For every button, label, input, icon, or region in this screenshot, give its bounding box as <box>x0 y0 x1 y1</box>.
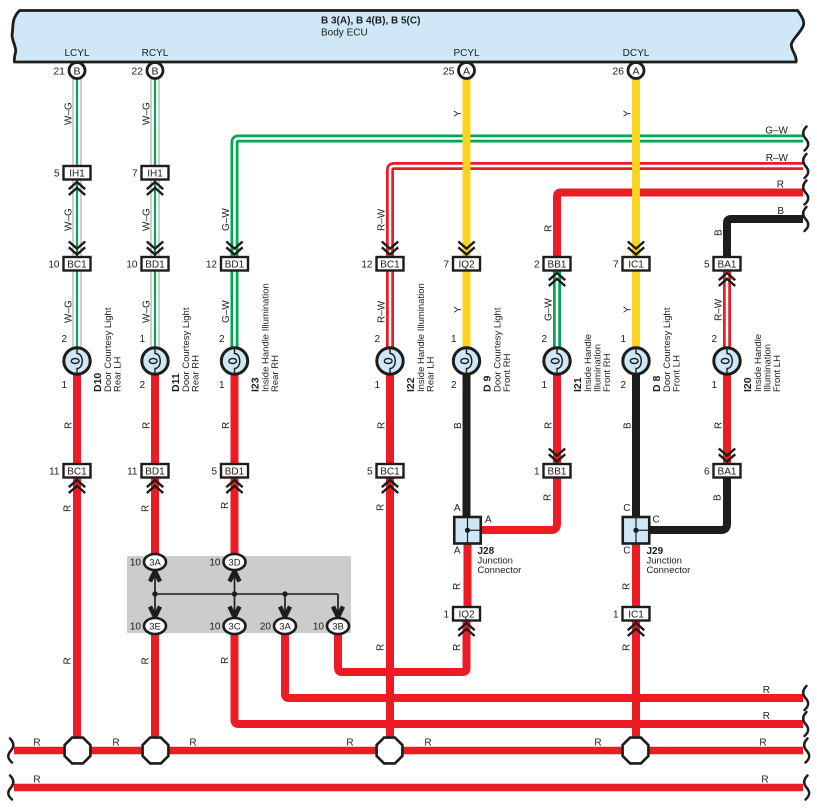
svg-text:W–G: W–G <box>142 208 153 231</box>
svg-text:2: 2 <box>451 380 457 391</box>
svg-text:Rear LH: Rear LH <box>113 356 124 392</box>
svg-text:LCYL: LCYL <box>64 48 89 59</box>
bulb pin numbers x=466.5 <box>451 334 457 391</box>
connector 12 BC1 <box>361 242 403 271</box>
svg-text:R–W: R–W <box>377 208 388 231</box>
svg-text:22: 22 <box>131 65 143 77</box>
junction connector J29 <box>623 517 650 544</box>
label I20 Inside Handle Illumination Front LH <box>742 334 783 392</box>
svg-text:W–G: W–G <box>64 208 75 231</box>
svg-text:BD1: BD1 <box>225 259 245 270</box>
label R c1 lower <box>63 657 74 664</box>
svg-text:10: 10 <box>48 259 60 270</box>
connector 1 IC1 <box>613 607 650 636</box>
svg-text:R: R <box>33 775 40 786</box>
svg-text:10: 10 <box>130 622 142 633</box>
svg-text:Y: Y <box>453 306 464 313</box>
label R main bus x=428 <box>424 738 431 749</box>
label B c5 <box>453 422 464 429</box>
label B c8 upper <box>714 229 725 236</box>
label J29 Junction Connector <box>647 546 691 576</box>
svg-text:R: R <box>377 422 388 429</box>
connector 10 3A <box>130 554 166 570</box>
svg-text:R: R <box>221 422 232 429</box>
svg-text:1: 1 <box>620 334 626 345</box>
svg-text:Front LH: Front LH <box>672 355 683 392</box>
label G-W c6 <box>544 298 555 321</box>
label R c4 lower <box>376 644 387 651</box>
label Y c7 lower <box>623 306 634 313</box>
svg-text:R: R <box>220 657 231 664</box>
svg-text:10: 10 <box>126 259 138 270</box>
label I22 Inside Handle Illumination Rear LH <box>405 283 437 392</box>
connector 10 BC1 <box>48 242 90 271</box>
label R c6 upper <box>544 225 555 232</box>
wire R from bulb D11 to connector 3A <box>151 372 159 558</box>
label R lineB right <box>763 685 770 696</box>
svg-text:BA1: BA1 <box>718 466 737 477</box>
svg-text:2: 2 <box>620 380 626 391</box>
svg-text:A: A <box>454 503 461 514</box>
svg-text:11: 11 <box>127 466 138 477</box>
wire R-W horizontal to right edge, turns down at x=390 <box>390 166 803 350</box>
connector 7 IQ2 <box>443 242 480 271</box>
svg-text:11: 11 <box>49 466 60 477</box>
svg-text:A: A <box>485 515 492 526</box>
svg-text:R: R <box>112 738 119 749</box>
svg-text:R: R <box>714 422 725 429</box>
svg-text:12: 12 <box>206 259 218 270</box>
pin A top of J28 <box>454 503 461 514</box>
svg-text:26: 26 <box>612 65 624 77</box>
svg-text:G–W: G–W <box>221 208 232 231</box>
label R lineC right <box>763 711 770 722</box>
svg-text:10: 10 <box>209 622 221 633</box>
label R-W c4 mid <box>377 208 388 231</box>
bulb pin numbers x=77.0 <box>61 334 67 391</box>
label R-W right <box>766 153 789 164</box>
label R main bus x=37 <box>33 738 40 749</box>
svg-text:3A: 3A <box>279 622 291 633</box>
label R c3 mid <box>220 502 231 509</box>
svg-text:DCYL: DCYL <box>623 48 650 59</box>
connector 1 BB1 <box>534 449 571 478</box>
label R c8 mid <box>714 422 725 429</box>
svg-text:2: 2 <box>61 334 67 345</box>
svg-text:B: B <box>73 65 80 77</box>
svg-text:IH1: IH1 <box>69 168 85 179</box>
svg-text:R: R <box>763 685 770 696</box>
ground bus R bottom with torn ends <box>14 784 803 792</box>
pin label DCYL <box>623 48 650 59</box>
svg-text:R: R <box>189 738 196 749</box>
svg-text:3C: 3C <box>228 622 240 633</box>
svg-text:Rear RH: Rear RH <box>270 355 281 392</box>
pin label LCYL <box>64 48 89 59</box>
svg-text:R: R <box>759 738 766 749</box>
svg-text:R: R <box>220 502 231 509</box>
label R main bus x=116 <box>112 738 119 749</box>
svg-text:1: 1 <box>61 380 67 391</box>
svg-text:R–W: R–W <box>377 300 388 323</box>
wire R from bulb D10 to ground octagon <box>73 372 81 751</box>
svg-text:R: R <box>763 711 770 722</box>
connector 10 3B <box>313 618 349 634</box>
svg-text:B: B <box>713 494 724 501</box>
svg-text:BC1: BC1 <box>380 259 400 270</box>
svg-text:Front LH: Front LH <box>772 355 783 392</box>
label G-W c3 lower <box>221 300 232 323</box>
svg-text:Connector: Connector <box>647 565 691 576</box>
svg-text:10: 10 <box>209 558 221 569</box>
svg-text:BB1: BB1 <box>548 466 567 477</box>
label R c2 lower <box>141 657 152 664</box>
lamp D10 <box>64 348 90 374</box>
pin 25 A <box>443 63 475 79</box>
svg-text:Connector: Connector <box>478 565 522 576</box>
wire R from connector 3E to ground octagon <box>151 630 159 751</box>
label Y c7 upper <box>623 110 634 117</box>
pin 26 A <box>612 63 644 79</box>
label R c7 lower <box>622 644 633 651</box>
wire R from connector 3C turning right to edge <box>235 630 804 724</box>
svg-text:G–W: G–W <box>765 126 788 137</box>
wire B from connector BA1 to junction J29 <box>650 478 727 531</box>
label G-W c3 mid <box>221 208 232 231</box>
torn end bottom bus right <box>804 776 809 800</box>
svg-text:R: R <box>544 225 555 232</box>
pin 22 B <box>131 63 163 79</box>
lamp I20 <box>714 348 740 374</box>
label R-W c4 lower <box>377 300 388 323</box>
svg-text:R: R <box>63 657 74 664</box>
torn end bottom bus left <box>8 776 13 800</box>
svg-text:IQ2: IQ2 <box>458 259 475 270</box>
svg-text:R: R <box>452 644 463 651</box>
label D11 Door Courtesy Light Rear RH <box>170 307 202 392</box>
svg-text:Front RH: Front RH <box>502 353 513 392</box>
svg-text:C: C <box>623 503 630 514</box>
pin A bottom of J28 <box>454 546 461 557</box>
junction connector J28 <box>454 517 481 544</box>
svg-text:BD1: BD1 <box>145 259 165 270</box>
ground bus R main with torn ends <box>14 747 803 755</box>
svg-text:B: B <box>453 422 464 429</box>
svg-text:R: R <box>622 583 633 590</box>
connector 1 IQ2 <box>443 607 480 636</box>
label Y c5 lower <box>453 306 464 313</box>
label R right <box>777 180 784 191</box>
label R main bus x=350 <box>346 738 353 749</box>
svg-text:BC1: BC1 <box>67 466 87 477</box>
connector 7 IC1 <box>613 242 650 271</box>
label R main bus x=598 <box>594 738 601 749</box>
label R c4 upper <box>377 422 388 429</box>
label W-G c2 mid <box>142 208 153 231</box>
connector 5 IH1 <box>54 166 91 195</box>
torn end B <box>803 207 808 231</box>
svg-text:Rear LH: Rear LH <box>426 356 437 392</box>
svg-text:3A: 3A <box>149 558 161 569</box>
svg-text:R: R <box>622 644 633 651</box>
svg-text:R: R <box>63 505 74 512</box>
label B right <box>777 206 784 217</box>
svg-text:W–G: W–G <box>64 102 75 125</box>
svg-text:Y: Y <box>623 306 634 313</box>
connector 10 3E <box>130 618 166 634</box>
svg-text:1: 1 <box>534 466 540 477</box>
svg-text:C: C <box>623 546 630 557</box>
bulb pin numbers x=390.0 <box>374 334 380 391</box>
svg-text:G–W: G–W <box>221 300 232 323</box>
svg-text:R: R <box>424 738 431 749</box>
svg-text:IH1: IH1 <box>147 168 163 179</box>
label R-W c8 <box>714 298 725 321</box>
label D10 Door Courtesy Light Rear LH <box>92 307 124 392</box>
label I23 Inside Handle Illumination Rear RH <box>250 283 282 392</box>
svg-text:1: 1 <box>541 380 547 391</box>
wire W-G from pin 21 to bulb D10 <box>73 77 82 350</box>
svg-text:R: R <box>777 180 784 191</box>
connector 5 BC1 <box>367 464 404 493</box>
svg-text:A: A <box>632 65 639 77</box>
svg-text:Front RH: Front RH <box>602 353 613 392</box>
wire B from bulb D8 to junction connector J29 <box>632 372 640 519</box>
svg-text:2: 2 <box>541 334 547 345</box>
ground node octagon 3 <box>377 738 403 764</box>
pin 21 B <box>53 63 85 79</box>
connector 11 BD1 <box>127 464 168 493</box>
label R main bus x=193 <box>189 738 196 749</box>
ground block internal busbar <box>150 571 343 617</box>
svg-text:W–G: W–G <box>64 300 75 323</box>
svg-text:R: R <box>543 494 554 501</box>
svg-text:R: R <box>64 422 75 429</box>
svg-text:5: 5 <box>54 168 60 179</box>
svg-text:10: 10 <box>313 622 325 633</box>
torn end main bus left <box>8 739 13 763</box>
svg-text:IQ2: IQ2 <box>458 609 475 620</box>
label R bottom bus x=765 <box>761 775 768 786</box>
wire R from junction J29 to ground octagon <box>632 542 640 751</box>
svg-text:A: A <box>463 65 470 77</box>
svg-text:2: 2 <box>219 334 225 345</box>
connector 6 BA1 <box>704 449 741 478</box>
label R c7 mid <box>622 583 633 590</box>
svg-text:2: 2 <box>139 380 145 391</box>
label W-G c1 upper <box>64 102 75 125</box>
svg-text:BD1: BD1 <box>145 466 165 477</box>
svg-text:5: 5 <box>367 466 373 477</box>
wire G-W from connector BB1 to bulb I21 <box>553 271 561 351</box>
svg-text:21: 21 <box>53 65 65 77</box>
connector 10 3C <box>209 618 245 634</box>
label D8 Door Courtesy Light Front LH <box>651 307 683 392</box>
wire R horizontal to right edge, turns down at x=557 <box>557 193 803 260</box>
lamp D9 <box>453 348 479 374</box>
svg-text:IC1: IC1 <box>628 259 644 270</box>
lamp D11 <box>142 348 168 374</box>
svg-text:RCYL: RCYL <box>142 48 169 59</box>
wire B from bulb D9 to junction connector J28 <box>463 372 471 519</box>
wire Y from pin 26 to bulb D8 <box>632 77 640 350</box>
bulb pin numbers x=155.0 <box>139 334 145 391</box>
svg-text:3E: 3E <box>149 622 161 633</box>
svg-text:Y: Y <box>623 110 634 117</box>
ECU block Body ECU B3(A) B4(B) B5(C) <box>12 11 804 63</box>
ground node octagon 4 <box>623 738 649 764</box>
wire R-W from connector BA1 to bulb I20 <box>723 271 731 351</box>
svg-text:7: 7 <box>132 168 138 179</box>
label G-W right <box>765 126 788 137</box>
label R bottom bus x=37 <box>33 775 40 786</box>
wire W-G from pin 22 to bulb D11 <box>151 77 160 350</box>
label R c2 upper <box>142 422 153 429</box>
label R c5 mid <box>452 583 463 590</box>
svg-text:1: 1 <box>139 334 145 345</box>
label B c8 lower <box>713 494 724 501</box>
svg-text:R: R <box>452 583 463 590</box>
svg-text:R: R <box>142 422 153 429</box>
svg-text:W–G: W–G <box>142 102 153 125</box>
label R c4 mid <box>376 504 387 511</box>
wire R from bulb I22 to ground octagon <box>386 372 394 751</box>
label W-G c1 mid <box>64 208 75 231</box>
svg-text:BB1: BB1 <box>548 259 567 270</box>
torn end G-W <box>803 127 808 151</box>
svg-text:3D: 3D <box>228 558 240 569</box>
svg-text:C: C <box>653 515 660 526</box>
pin label RCYL <box>142 48 169 59</box>
svg-text:PCYL: PCYL <box>453 48 480 59</box>
svg-text:R–W: R–W <box>766 153 789 164</box>
label J28 Junction Connector <box>478 546 522 576</box>
svg-text:1: 1 <box>451 334 457 345</box>
label B c7 <box>623 422 634 429</box>
connector 20 3A <box>260 618 296 634</box>
svg-text:B: B <box>623 422 634 429</box>
wire B horizontal to right edge, turns down at x=727 <box>727 219 803 259</box>
svg-text:7: 7 <box>443 259 449 270</box>
connector 2 BB1 <box>534 257 571 286</box>
bulb pin numbers x=636.0 <box>620 334 626 391</box>
pin C right of J29 <box>653 515 660 526</box>
svg-text:R: R <box>33 738 40 749</box>
svg-text:R: R <box>594 738 601 749</box>
svg-text:G–W: G–W <box>544 298 555 321</box>
connector 10 BD1 <box>126 242 168 271</box>
svg-text:IC1: IC1 <box>628 609 644 620</box>
wire R from junction J28 to connector IQ2 <box>464 542 472 621</box>
svg-text:5: 5 <box>211 466 217 477</box>
svg-text:B: B <box>777 206 784 217</box>
wire R from connector 3A-20 turning right to edge <box>285 630 803 698</box>
svg-text:1: 1 <box>711 380 717 391</box>
ground junction block <box>127 556 351 633</box>
svg-text:R: R <box>376 504 387 511</box>
svg-text:25: 25 <box>443 65 455 77</box>
svg-text:R–W: R–W <box>714 298 725 321</box>
label R c1 upper <box>64 422 75 429</box>
svg-text:B: B <box>151 65 158 77</box>
svg-text:BC1: BC1 <box>380 466 400 477</box>
label R c5 lower <box>452 644 463 651</box>
torn end R-W <box>803 154 808 178</box>
svg-text:Y: Y <box>453 110 464 117</box>
svg-text:B: B <box>714 229 725 236</box>
svg-text:R: R <box>376 644 387 651</box>
pin A right of J28 <box>485 515 492 526</box>
label I21 Inside Handle Illumination Front RH <box>572 334 613 392</box>
wire R from bulb I21 to connector BB1 <box>553 372 561 466</box>
label R c3 upper <box>221 422 232 429</box>
wire R from bulb I20 to connector BA1 <box>723 372 731 466</box>
bulb pin numbers x=727.0 <box>711 334 717 391</box>
svg-text:12: 12 <box>361 259 373 270</box>
wire G-W horizontal to right edge, turns down at x=234.5 <box>235 139 804 351</box>
svg-text:1: 1 <box>219 380 225 391</box>
connector 11 BC1 <box>49 464 90 493</box>
label W-G c2 upper <box>142 102 153 125</box>
lamp D8 <box>623 348 649 374</box>
label R main bus x=763 <box>759 738 766 749</box>
svg-text:1: 1 <box>443 609 449 620</box>
label R c3 lower <box>220 657 231 664</box>
svg-text:B 3(A), B 4(B), B 5(C): B 3(A), B 4(B), B 5(C) <box>321 16 420 27</box>
bulb pin numbers x=234.5 <box>219 334 225 391</box>
svg-text:3B: 3B <box>332 622 344 633</box>
svg-text:10: 10 <box>130 558 142 569</box>
label R c1 mid <box>63 505 74 512</box>
svg-text:W–G: W–G <box>142 300 153 323</box>
connector 5 BD1 <box>211 464 248 493</box>
label W-G c1 lower <box>64 300 75 323</box>
lamp I23 <box>221 348 247 374</box>
label R c2 mid <box>141 505 152 512</box>
svg-text:20: 20 <box>260 622 272 633</box>
svg-text:2: 2 <box>534 259 540 270</box>
svg-text:R: R <box>544 422 555 429</box>
svg-text:R: R <box>761 775 768 786</box>
bulb pin numbers x=557.0 <box>541 334 547 391</box>
connector 12 BD1 <box>206 242 248 271</box>
svg-text:BC1: BC1 <box>67 259 87 270</box>
label R c6 mid <box>544 422 555 429</box>
svg-text:1: 1 <box>374 380 380 391</box>
wire R from bulb I23 to connector 3D <box>231 372 239 558</box>
torn end line C right <box>803 712 808 736</box>
label Y c5 upper <box>453 110 464 117</box>
torn end main bus right <box>804 739 809 763</box>
lamp I21 <box>544 348 570 374</box>
wire R from connector BB1 to junction J28 <box>481 478 557 531</box>
svg-text:R: R <box>141 657 152 664</box>
svg-text:BD1: BD1 <box>225 466 245 477</box>
wire R from connector 3B to junction IQ2 drop <box>338 621 467 673</box>
label W-G c2 lower <box>142 300 153 323</box>
lamp I22 <box>377 348 403 374</box>
svg-text:6: 6 <box>704 466 710 477</box>
ground node octagon 2 <box>143 738 169 764</box>
ground node octagon 1 <box>65 738 91 764</box>
svg-text:7: 7 <box>613 259 619 270</box>
torn end line B right <box>803 686 808 710</box>
svg-text:1: 1 <box>613 609 619 620</box>
label R c6 lower <box>543 494 554 501</box>
svg-text:Rear RH: Rear RH <box>191 355 202 392</box>
svg-text:R: R <box>346 738 353 749</box>
torn end R <box>803 181 808 205</box>
